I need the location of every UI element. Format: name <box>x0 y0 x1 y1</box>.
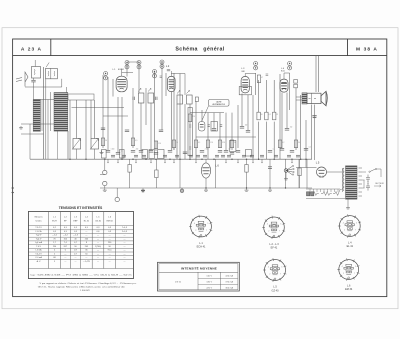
svg-text:—: — <box>109 257 111 259</box>
svg-text:—: — <box>123 235 125 237</box>
ground symbols below secondary bus <box>104 188 106 190</box>
transformer ground drop <box>347 199 349 206</box>
svg-text:100: 100 <box>245 125 248 127</box>
title bar bottom rule <box>13 55 387 57</box>
capacitor <box>230 152 234 154</box>
capacitor <box>290 150 294 152</box>
svg-text:20: 20 <box>234 142 236 144</box>
antenna coil box 1 <box>32 67 41 79</box>
left frame tick marks <box>12 187 14 189</box>
capacitor <box>246 130 250 132</box>
capacitor under box 1 <box>33 78 35 80</box>
svg-text:2: 2 <box>269 273 270 275</box>
resistor <box>188 114 191 122</box>
capacitor <box>218 150 222 152</box>
wire rectifier feed <box>296 167 317 169</box>
svg-text:50: 50 <box>154 149 156 151</box>
svg-text:EM 34: EM 34 <box>345 288 353 291</box>
svg-text:T.g1 V: T.g1 V <box>36 238 42 240</box>
svg-text:7: 7 <box>206 230 207 232</box>
pickup jack circle 2 <box>103 181 107 185</box>
svg-text:L.6: L.6 <box>215 164 219 168</box>
resistor <box>218 140 221 148</box>
capacitor <box>200 150 204 152</box>
svg-text:—: — <box>109 253 111 255</box>
selector plug squares <box>307 192 310 196</box>
svg-text:10: 10 <box>176 142 178 144</box>
svg-text:5: 5 <box>280 224 281 226</box>
component box D <box>246 150 252 157</box>
capacitor <box>139 150 143 152</box>
component box A tube-like <box>199 122 205 132</box>
svg-text:200: 200 <box>136 149 139 151</box>
svg-text:M 38 A: M 38 A <box>356 46 378 52</box>
svg-text:T.4-2 V: T.4-2 V <box>35 253 42 255</box>
wire L4 top <box>284 72 290 74</box>
resistor <box>101 138 104 146</box>
wire antenna lead <box>25 86 62 88</box>
socket L1 ECH 41 <box>191 216 212 237</box>
svg-text:30: 30 <box>298 142 300 144</box>
svg-text:0,2: 0,2 <box>282 142 284 144</box>
svg-text:GZ 40: GZ 40 <box>95 221 102 223</box>
svg-text:EL 41: EL 41 <box>281 70 285 72</box>
pickup jack circle 1 <box>103 170 107 174</box>
coupling component right of L4 <box>294 80 298 84</box>
svg-text:I.4 mA: I.4 mA <box>36 249 42 252</box>
capacitor <box>236 150 240 152</box>
shield box around L3 base <box>239 87 251 95</box>
capacitor <box>106 150 110 152</box>
capacitor <box>131 150 135 152</box>
wire coil mid links <box>72 107 125 109</box>
ground stubs below chassis bus <box>107 159 109 162</box>
rotary switch contacts <box>284 169 288 173</box>
svg-text:1 B 51: 1 B 51 <box>175 281 182 283</box>
svg-text:—: — <box>85 235 87 237</box>
component box B <box>211 122 217 132</box>
chassis bus line <box>30 158 312 160</box>
switch ground stub <box>285 172 287 177</box>
svg-text:2+0,3: 2+0,3 <box>122 231 128 233</box>
resistor <box>265 112 268 120</box>
svg-text:A 23 A: A 23 A <box>21 46 42 52</box>
svg-text:0,1: 0,1 <box>121 151 123 153</box>
rectifier tube L5 <box>317 167 327 177</box>
svg-text:7+6,3: 7+6,3 <box>122 227 128 229</box>
trimmer capacitor <box>254 62 258 66</box>
coil main tuning block hatched <box>54 93 68 132</box>
resistor <box>230 140 233 148</box>
svg-text:TENSIONS ET INTENSITÉS: TENSIONS ET INTENSITÉS <box>59 205 103 210</box>
svg-text:50: 50 <box>261 114 263 116</box>
svg-text:2: 2 <box>195 230 196 232</box>
svg-text:2: 2 <box>268 231 269 233</box>
potentiometer P2 <box>91 139 99 150</box>
svg-text:—: — <box>109 235 111 237</box>
ground near pots <box>101 151 103 153</box>
wire stubs above boxes <box>34 60 36 67</box>
wire transformer top link <box>327 171 343 173</box>
below-bus resistor 2 <box>155 170 158 178</box>
svg-text:—: — <box>123 238 125 240</box>
svg-text:0,1: 0,1 <box>273 149 275 151</box>
svg-text:INTENSITÉ MOYENNE: INTENSITÉ MOYENNE <box>181 266 217 271</box>
svg-text:—: — <box>85 231 87 233</box>
power transformer core hatched <box>346 166 358 199</box>
voltage selector resistor chain <box>308 192 319 196</box>
svg-text:0,2: 0,2 <box>309 147 311 149</box>
svg-text:L.2 - L.3: L.2 - L.3 <box>269 243 279 246</box>
intensite box dividers <box>197 272 199 289</box>
capacitor <box>101 127 105 129</box>
power transformer winding bumps <box>343 168 344 191</box>
svg-text:GZ 40: GZ 40 <box>272 289 280 292</box>
svg-text:EL 41: EL 41 <box>84 221 90 223</box>
svg-text:25: 25 <box>276 114 278 116</box>
svg-text:5: 5 <box>355 266 356 268</box>
svg-text:ECH 41: ECH 41 <box>118 69 124 71</box>
svg-text:4: 4 <box>267 224 268 226</box>
svg-text:ECH 41: ECH 41 <box>197 246 206 249</box>
wire coil interconnect verticals <box>47 100 49 160</box>
wire vertical feed left pair <box>43 67 45 159</box>
svg-text:7: 7 <box>355 229 356 231</box>
wire coil top link <box>34 99 55 101</box>
svg-text:—: — <box>97 238 99 240</box>
caps beside IF1 <box>133 97 157 100</box>
drawing frame border <box>13 39 387 297</box>
tube L3 detector <box>241 77 249 93</box>
wire L1 top <box>121 69 123 77</box>
svg-text:420 mA: 420 mA <box>225 275 233 278</box>
svg-text:5: 5 <box>281 266 282 268</box>
resistor <box>294 140 297 148</box>
wire selector rail <box>306 188 340 190</box>
svg-text:T.g2 V: T.g2 V <box>36 235 42 237</box>
capacitor <box>125 129 129 131</box>
svg-text:—: — <box>64 253 66 255</box>
svg-text:2: 2 <box>344 229 345 231</box>
tube L6 magic eye <box>201 163 210 178</box>
svg-text:220 V: 220 V <box>206 288 212 290</box>
junction dots on bus <box>69 158 71 160</box>
svg-text:—: — <box>123 246 125 248</box>
svg-text:I.5-2 A: I.5-2 A <box>36 230 42 233</box>
cadre antiparasites label box <box>209 100 230 107</box>
mains switch <box>370 169 376 172</box>
socket L2 L3 EF 41 <box>264 217 285 238</box>
capacitor <box>285 128 289 130</box>
svg-text:—: — <box>75 261 77 263</box>
voltages table grid <box>28 212 133 279</box>
output transformer hatched core <box>302 93 307 104</box>
svg-text:—: — <box>64 261 66 263</box>
potentiometer P1 <box>73 139 81 150</box>
svg-text:—: — <box>123 261 125 263</box>
svg-text:—: — <box>97 235 99 237</box>
capacitor <box>149 150 153 152</box>
svg-text:1(700): 1(700) <box>95 246 101 248</box>
svg-text:Lg : 525 490 à 518 — PO 190 à: Lg : 525 490 à 518 — PO 190 à 580 — OC 1… <box>31 274 132 276</box>
svg-text:370 mA: 370 mA <box>225 281 233 284</box>
svg-text:EM 34: EM 34 <box>107 221 114 223</box>
svg-text:0,1: 0,1 <box>198 142 200 144</box>
svg-text:50: 50 <box>105 140 107 142</box>
resistor boxes on chassis bus <box>142 150 147 159</box>
tube L4 output <box>280 79 288 92</box>
capacitor <box>224 150 228 152</box>
IF transformer 1 windings <box>138 93 144 103</box>
svg-text:1 500 Ω/V: 1 500 Ω/V <box>80 290 90 292</box>
svg-text:EBF: EBF <box>242 71 245 73</box>
svg-text:300 mA: 300 mA <box>225 287 233 290</box>
svg-text:2 000: 2 000 <box>205 149 209 151</box>
svg-text:0,1: 0,1 <box>173 149 175 151</box>
capacitor <box>212 128 216 130</box>
svg-text:130 V: 130 V <box>206 282 212 284</box>
cap right of L3 cluster <box>266 74 269 76</box>
svg-text:4: 4 <box>342 266 343 268</box>
svg-text:L.4: L.4 <box>348 242 352 245</box>
trimmer capacitor <box>137 61 141 65</box>
wire L2 to IF2 top <box>171 73 185 75</box>
capacitor <box>304 148 308 150</box>
svg-text:4: 4 <box>268 266 269 268</box>
svg-text:T.5-2 V: T.5-2 V <box>35 227 42 229</box>
trimmer capacitor <box>153 70 157 74</box>
svg-text:5: 5 <box>356 222 357 224</box>
capacitor <box>183 151 187 153</box>
socket L4 EL 41 <box>339 216 360 237</box>
svg-text:ECH: ECH <box>52 221 57 223</box>
component box C <box>230 141 236 152</box>
svg-text:—: — <box>123 257 125 259</box>
svg-text:150: 150 <box>290 127 293 129</box>
svg-text:—: — <box>109 261 111 263</box>
svg-text:Mesures: Mesures <box>35 216 43 219</box>
antenna <box>16 72 28 87</box>
resistor right of switch <box>298 168 301 176</box>
svg-text:47: 47 <box>261 77 263 79</box>
speaker frame box <box>307 93 321 103</box>
IF core tall rect <box>188 108 192 156</box>
svg-text:—: — <box>75 257 77 259</box>
svg-text:7: 7 <box>354 273 355 275</box>
wire box2 drop right <box>61 79 63 87</box>
resistor <box>257 75 260 83</box>
svg-text:0,1: 0,1 <box>269 114 271 116</box>
wire left bus riser <box>29 124 31 159</box>
capacitor <box>154 152 158 154</box>
svg-text:L.1: L.1 <box>199 242 203 245</box>
svg-text:L.5: L.5 <box>316 161 320 165</box>
oscillator coil box top <box>68 94 94 100</box>
resistor <box>194 140 197 148</box>
wire speaker left stubs <box>296 96 302 98</box>
below-bus resistor 3 <box>245 165 248 173</box>
resistor above box A <box>195 97 198 102</box>
svg-text:—: — <box>123 250 125 252</box>
capacitor <box>240 126 244 128</box>
extra capacitors row <box>111 154 115 156</box>
svg-text:—: — <box>97 242 99 244</box>
cap under L2 label <box>167 69 170 70</box>
switch arm above box2 <box>46 63 49 68</box>
svg-text:GO m. Sans signal. Mesures eff: GO m. Sans signal. Mesures effectuées av… <box>38 286 126 289</box>
svg-text:EL 41: EL 41 <box>347 245 354 248</box>
svg-text:EF 41: EF 41 <box>271 246 278 249</box>
resistor <box>172 140 175 148</box>
wire mains to border <box>377 168 382 170</box>
svg-text:5: 5 <box>207 223 208 225</box>
wire L3 top <box>245 73 255 75</box>
resistor <box>273 112 276 120</box>
caps beside box B <box>208 125 223 127</box>
svg-text:V par rapport au châssis. Châs: V par rapport au châssis. Châssis et «m»… <box>40 282 137 285</box>
pot drop wires <box>76 149 78 159</box>
wires under coil block <box>57 131 59 159</box>
svg-text:—: — <box>97 257 99 259</box>
wire power right links <box>362 171 366 173</box>
socket L5 GZ 40 <box>265 260 286 281</box>
cap left of L2 top <box>160 76 162 78</box>
svg-text:5 000: 5 000 <box>111 149 115 151</box>
junction dots on secondary bus <box>205 187 206 188</box>
ground left terminal <box>20 126 22 128</box>
svg-text:—: — <box>85 257 87 259</box>
trimmer capacitor <box>160 60 164 64</box>
capacitor under speaker <box>312 115 316 117</box>
svg-text:—: — <box>97 250 99 252</box>
below-bus resistor 1 <box>128 165 131 173</box>
selector tap pins <box>309 189 311 192</box>
resistor <box>131 138 134 146</box>
tube L2 IF amp <box>168 76 176 91</box>
svg-text:4: 4 <box>343 222 344 224</box>
svg-text:L.5: L.5 <box>273 286 277 289</box>
trimmer capacitor <box>104 72 108 76</box>
socket L6 EM 34 <box>339 260 359 280</box>
svg-text:T.4 V: T.4 V <box>36 246 41 248</box>
svg-text:110 V: 110 V <box>206 276 212 278</box>
wire top link L1 cluster <box>127 61 139 63</box>
resistor <box>278 140 281 148</box>
resistor <box>154 141 157 149</box>
speaker cone <box>321 91 326 106</box>
svg-text:0,5: 0,5 <box>229 149 231 151</box>
svg-text:—: — <box>109 238 111 240</box>
svg-text:—: — <box>97 261 99 263</box>
tube L1 triode-hexode <box>116 76 127 92</box>
trimmer capacitor <box>288 62 292 66</box>
svg-text:I.g1 mA: I.g1 mA <box>35 241 43 244</box>
capacitor <box>268 150 272 152</box>
svg-text:—1,475: —1,475 <box>83 261 91 263</box>
capacitor <box>159 129 163 131</box>
resistor <box>257 112 260 120</box>
title box A 23 A divider <box>50 39 52 56</box>
title box M 38 A divider <box>347 39 349 56</box>
trimmer capacitor <box>125 61 129 65</box>
capacitor <box>116 152 120 154</box>
wire left terminal upper <box>21 123 54 125</box>
svg-text:—: — <box>97 253 99 255</box>
antenna coil box 2 double <box>46 68 58 78</box>
coil L bobinage small hatched block <box>33 100 40 132</box>
jack circle G <box>115 197 119 201</box>
svg-text:Unités: Unités <box>36 220 42 223</box>
capacitor <box>280 148 284 150</box>
cap on below-bus vertical <box>268 166 272 168</box>
svg-text:—: — <box>123 253 125 255</box>
svg-text:—: — <box>64 257 66 259</box>
svg-text:2: 2 <box>343 273 344 275</box>
svg-text:—: — <box>123 242 125 244</box>
wire verticals group <box>69 100 71 159</box>
capacitor <box>168 150 172 152</box>
IF transformer 2 windings <box>177 95 183 104</box>
mains filter capacitors <box>366 175 370 191</box>
power transformer secondary lines <box>359 168 363 196</box>
svg-text:0,5: 0,5 <box>135 140 137 142</box>
jack circle mid <box>180 189 184 193</box>
svg-text:Schéma général: Schéma général <box>175 46 224 52</box>
secondary bus line <box>100 187 312 189</box>
svg-text:A. V: A. V <box>37 260 41 263</box>
wire left terminal lower <box>21 133 44 135</box>
svg-text:4: 4 <box>194 223 195 225</box>
wire detector links <box>190 112 224 114</box>
svg-text:SECTEUR: SECTEUR <box>375 183 384 185</box>
svg-text:C.4 mA: C.4 mA <box>35 256 42 259</box>
resistor <box>206 140 209 148</box>
intensite moyenne box <box>158 262 240 291</box>
svg-text:7: 7 <box>279 231 280 233</box>
ground mark mid <box>142 189 144 191</box>
svg-text:7: 7 <box>280 273 281 275</box>
svg-text:L.6: L.6 <box>347 285 351 288</box>
wire below-bus verticals <box>179 159 181 188</box>
